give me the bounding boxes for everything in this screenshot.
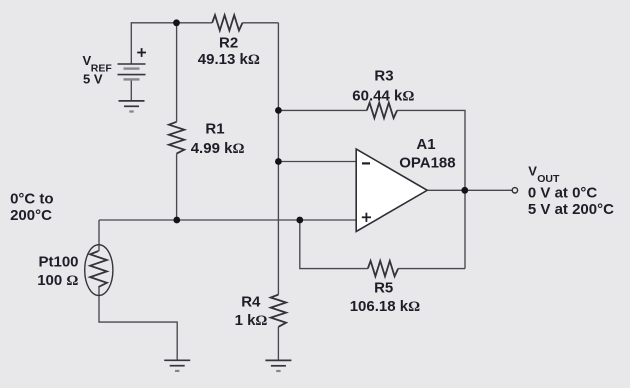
svg-text:1 kΩ: 1 kΩ — [235, 312, 268, 329]
svg-text:R5: R5 — [374, 280, 393, 297]
svg-text:100 Ω: 100 Ω — [37, 272, 78, 289]
svg-text:R2: R2 — [219, 34, 238, 51]
svg-text:60.44 kΩ: 60.44 kΩ — [352, 87, 414, 104]
svg-text:A1: A1 — [416, 136, 435, 153]
svg-text:106.18 kΩ: 106.18 kΩ — [350, 298, 420, 315]
svg-text:R1: R1 — [205, 120, 224, 137]
svg-text:Pt100: Pt100 — [38, 254, 78, 271]
svg-text:0 V at 0°C: 0 V at 0°C — [528, 185, 598, 202]
svg-text:V: V — [528, 164, 537, 179]
svg-text:R4: R4 — [241, 293, 261, 310]
svg-text:0°C to: 0°C to — [10, 191, 54, 208]
svg-text:49.13 kΩ: 49.13 kΩ — [198, 51, 260, 68]
svg-text:5 V: 5 V — [83, 71, 103, 86]
svg-text:4.99 kΩ: 4.99 kΩ — [191, 140, 245, 157]
svg-text:200°C: 200°C — [10, 207, 52, 224]
svg-text:5 V at 200°C: 5 V at 200°C — [528, 201, 614, 218]
svg-text:OPA188: OPA188 — [399, 155, 455, 172]
svg-text:R3: R3 — [374, 68, 393, 85]
svg-text:OUT: OUT — [537, 173, 560, 185]
